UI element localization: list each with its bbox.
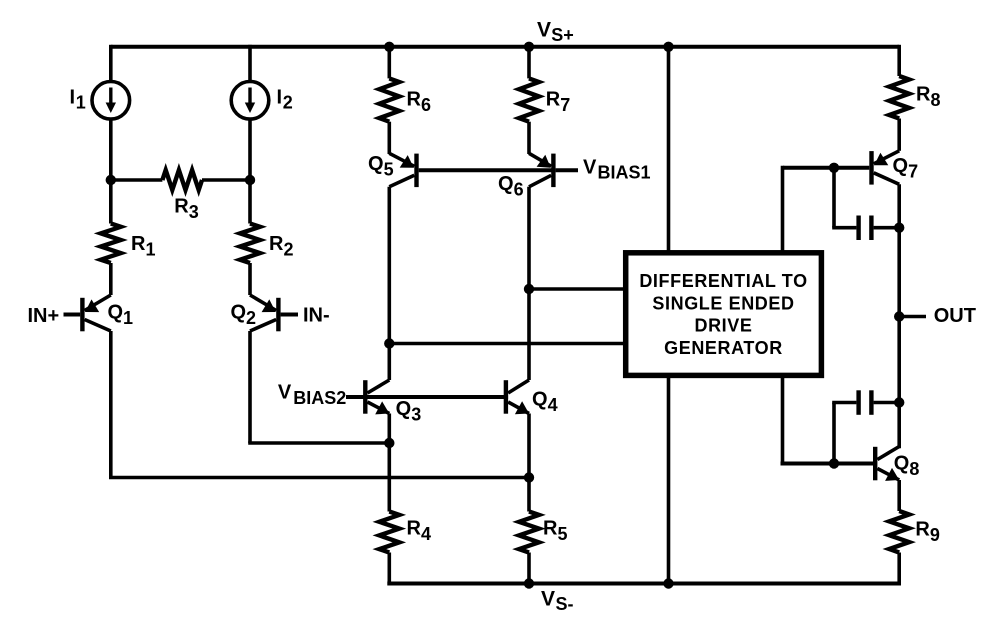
svg-text:Q: Q [894, 453, 910, 475]
svg-text:9: 9 [930, 525, 940, 545]
resistor R6 [379, 78, 399, 121]
transistor Q8 [873, 447, 877, 481]
transistor Q2 [276, 298, 280, 332]
wire: OUT node down to Q8 collector [897, 317, 901, 449]
svg-text:8: 8 [931, 90, 941, 110]
wire: R2 to Q2 emitter [248, 263, 252, 295]
svg-text:S+: S+ [551, 25, 574, 45]
svg-text:R: R [269, 233, 284, 255]
wire: V_S+ positive supply rail [111, 45, 899, 49]
capacitor C2 [856, 390, 860, 415]
svg-text:R: R [543, 518, 558, 540]
svg-text:6: 6 [421, 95, 431, 115]
wire: Q4 emitter down to R5 [527, 414, 531, 512]
wire: R3 right to node [202, 178, 250, 182]
transistor Q7 [869, 151, 873, 185]
svg-text:Q: Q [532, 389, 548, 411]
svg-text:1: 1 [123, 308, 133, 328]
wire: Q6 collector down to Q4 collector [527, 187, 531, 380]
svg-text:R: R [407, 89, 422, 111]
wire: R4 to V_S- rail [387, 553, 391, 584]
svg-text:7: 7 [908, 162, 918, 182]
svg-text:V: V [537, 18, 551, 41]
transistor Q4 [504, 380, 508, 414]
svg-text:Q: Q [108, 302, 124, 324]
wire: Q2 collector down and across to Q3 emitter [248, 331, 252, 443]
wire: top rail to R8 [897, 45, 901, 76]
svg-text:BIAS1: BIAS1 [598, 162, 651, 182]
node OUT [894, 311, 904, 321]
junction: Q7 base / compensation cap C1 [829, 163, 839, 173]
wire: generator box down to bottom rail [667, 376, 671, 584]
svg-text:Q: Q [368, 153, 384, 175]
resistor R3 [162, 170, 202, 190]
svg-text:DRIVE: DRIVE [694, 316, 752, 336]
wire: OUT stub [899, 315, 926, 319]
junction: Q8 base / C2 [829, 458, 839, 468]
resistor R1 [101, 224, 121, 264]
svg-text:DIFFERENTIAL TO: DIFFERENTIAL TO [639, 271, 807, 291]
wire: V_S- negative supply rail [387, 582, 899, 586]
svg-text:2: 2 [246, 308, 256, 328]
junction: Q2 collector / Q3 emitter / R4 [384, 438, 394, 448]
wire: R5 to V_S- rail [527, 553, 531, 584]
resistor R2 [240, 224, 260, 264]
wire: top rail to I2 [248, 45, 252, 82]
wire: Q7 base left and down into generator box top [781, 166, 785, 252]
junction: I2 / R2 / R3 [245, 175, 255, 185]
junction: C1 / Q7 collector [894, 223, 904, 233]
resistor R4 [379, 512, 399, 553]
wire: Q8 emitter to R9 [897, 480, 901, 511]
svg-text:6: 6 [514, 180, 524, 200]
svg-text:R: R [407, 518, 422, 540]
svg-text:IN+: IN+ [28, 305, 60, 327]
current source I1 [92, 82, 130, 120]
junction: bottom rail / R5 [524, 578, 534, 588]
svg-text:R: R [174, 196, 189, 218]
svg-text:GENERATOR: GENERATOR [664, 338, 783, 358]
svg-text:4: 4 [548, 395, 558, 415]
wire: junction down to R4 (crosses Q1 wire without connecting) [387, 443, 391, 512]
wire: node to R2 [248, 180, 252, 224]
svg-text:S-: S- [556, 594, 574, 614]
wire: tap to generator input 2 [389, 342, 625, 346]
wire: generator box bottom down and across to Q8 base [781, 376, 785, 464]
current source I2 [231, 82, 269, 120]
wire: C2 left lead down to Q8 base [832, 401, 856, 405]
wire: node to R1 [109, 180, 113, 224]
svg-text:Q: Q [231, 302, 247, 324]
svg-text:OUT: OUT [934, 305, 976, 327]
wire: Q3 emitter to junction [387, 414, 391, 444]
svg-text:2: 2 [283, 93, 293, 113]
wire: top rail down to generator box [667, 47, 671, 252]
block: differential to single ended drive generator [626, 253, 822, 376]
svg-text:V: V [278, 382, 292, 404]
svg-text:Q: Q [893, 155, 909, 177]
svg-text:Q: Q [498, 173, 514, 195]
wire: R8 to Q7 emitter [897, 119, 901, 151]
wire: Q7 collector down to OUT node [897, 184, 901, 316]
junction: bottom rail / generator supply [663, 578, 673, 588]
svg-text:8: 8 [909, 459, 919, 479]
transistor Q1 [80, 298, 84, 332]
svg-text:5: 5 [558, 524, 568, 544]
junction: I1 / R1 / R3 [106, 175, 116, 185]
junction: generator input 2 tap [384, 338, 394, 348]
junction: top rail / R7 [524, 42, 534, 52]
wire: top rail to R7 [527, 47, 531, 79]
svg-text:7: 7 [560, 95, 570, 115]
wire: node to R3 left [111, 178, 163, 182]
svg-text:BIAS2: BIAS2 [293, 388, 346, 408]
svg-text:Q: Q [396, 398, 412, 420]
transistor Q6 [551, 154, 555, 188]
resistor R7 [519, 78, 539, 121]
svg-text:5: 5 [384, 159, 394, 179]
wire: R6 to Q5 emitter [387, 122, 391, 154]
capacitor C1 [856, 216, 860, 241]
svg-text:3: 3 [411, 405, 421, 425]
resistor R9 [889, 511, 909, 553]
svg-text:1: 1 [76, 93, 86, 113]
wire: R7 to Q6 emitter [527, 122, 531, 154]
svg-text:V: V [583, 156, 597, 178]
wire: C1 left lead [832, 168, 836, 228]
wire: R1 to Q1 emitter [109, 263, 113, 295]
svg-text:1: 1 [146, 240, 156, 260]
wire: Q5 collector down to Q3 collector [387, 187, 391, 380]
wire: I1 to input node [109, 119, 113, 180]
svg-text:R: R [916, 83, 931, 105]
wire: C1 right lead [874, 226, 900, 230]
wire: top rail to R6 [387, 47, 391, 79]
svg-text:V: V [541, 588, 555, 611]
svg-text:R: R [131, 233, 146, 255]
transistor Q5 [414, 154, 418, 188]
resistor R5 [519, 512, 539, 553]
wire: Q1 collector down and across to Q4 emitter [109, 331, 113, 478]
wire: C2 right lead [874, 401, 900, 405]
transistor Q3 [363, 380, 367, 414]
svg-text:2: 2 [284, 240, 294, 260]
svg-text:R: R [915, 519, 930, 541]
wire: R9 to bottom rail [897, 553, 901, 586]
svg-text:IN-: IN- [303, 305, 330, 327]
wire: tap to generator input 1 [529, 287, 625, 291]
junction: generator input 1 tap [524, 284, 534, 294]
junction: C2 / Q8 collector [894, 397, 904, 407]
junction: top rail / generator supply [663, 42, 673, 52]
svg-text:3: 3 [189, 202, 199, 222]
resistor R8 [889, 76, 909, 119]
svg-text:I: I [70, 87, 76, 109]
junction: top rail / R6 [384, 42, 394, 52]
wire: I2 to input node [248, 119, 252, 180]
svg-text:4: 4 [421, 524, 431, 544]
svg-text:SINGLE ENDED: SINGLE ENDED [652, 293, 794, 313]
junction: Q1 collector wire / Q4 emitter [524, 472, 534, 482]
svg-text:R: R [546, 89, 561, 111]
svg-text:I: I [277, 87, 283, 109]
wire: top rail to I1 [109, 45, 113, 82]
